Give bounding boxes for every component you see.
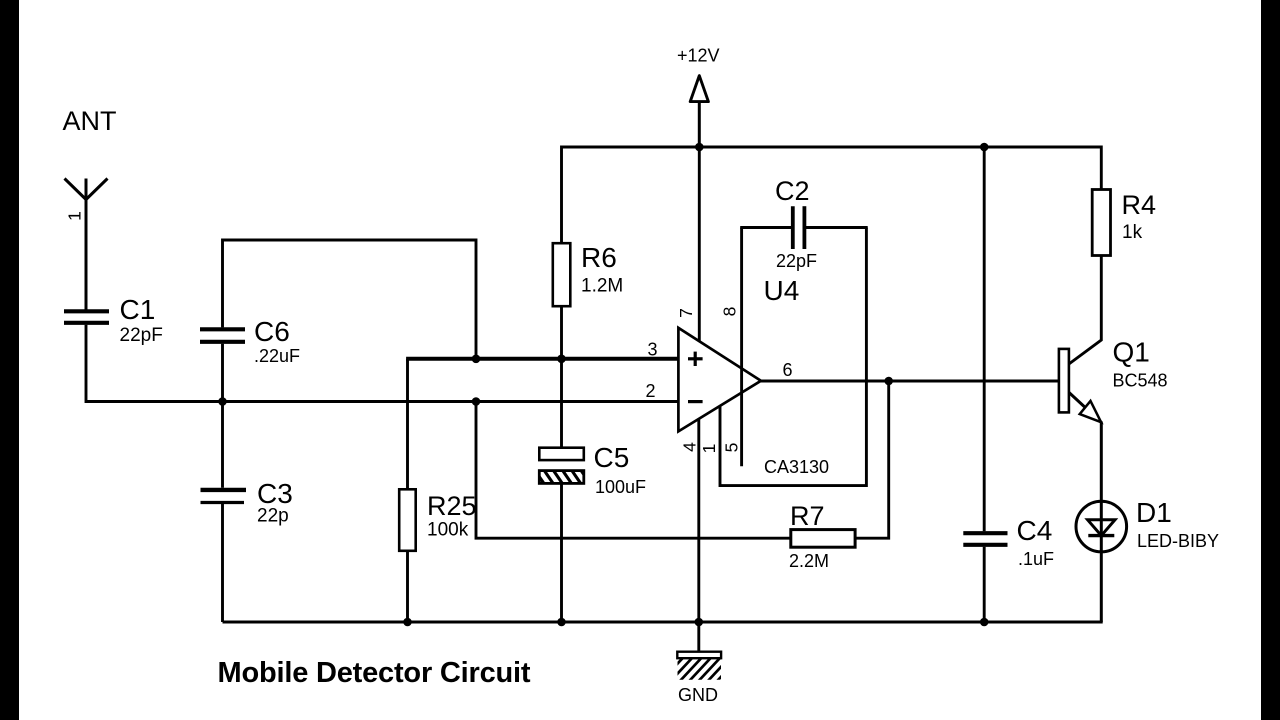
svg-text:100uF: 100uF xyxy=(595,477,646,497)
value 1.2M of R6 xyxy=(581,276,623,297)
label Q1 xyxy=(1113,337,1150,368)
label R4 xyxy=(1122,190,1157,220)
svg-text:D1: D1 xyxy=(1136,497,1172,528)
label C6 xyxy=(254,316,290,347)
pin label 1 xyxy=(699,444,719,454)
label GND xyxy=(678,685,718,705)
resistor R7 xyxy=(791,530,855,548)
svg-text:C1: C1 xyxy=(120,294,156,325)
label C1 xyxy=(120,294,156,325)
resistor R4 xyxy=(1092,190,1110,256)
label R25 xyxy=(427,491,477,521)
junction: R7 on output node xyxy=(884,377,893,386)
svg-text:1k: 1k xyxy=(1122,222,1143,243)
pin label 4 xyxy=(680,442,700,452)
label R6 xyxy=(581,242,617,273)
junction: C6/C3 on pin2 net xyxy=(218,397,227,406)
junction: R6 on pin3 net xyxy=(557,355,566,364)
wire: pin3 net down to C5 xyxy=(560,359,563,448)
wire: C5 to ground rail xyxy=(560,483,563,622)
svg-text:ANT: ANT xyxy=(63,106,117,136)
label C2 xyxy=(775,176,810,206)
svg-text:+12V: +12V xyxy=(677,46,720,66)
wire: rail down to C4 xyxy=(983,147,986,531)
svg-text:R6: R6 xyxy=(581,242,617,273)
value BC548 of Q1 xyxy=(1113,371,1168,391)
wire: pin2 net down to R7 xyxy=(476,402,791,539)
capacitor C5 bottom plate (polarized, hatched) xyxy=(533,468,592,487)
wire: pin 7 supply into op-amp xyxy=(698,147,701,343)
junction: C4 on ground rail xyxy=(980,618,989,627)
pin label 2 xyxy=(645,381,655,401)
wire: op-amp output pin 6 to Q1 base xyxy=(761,380,1059,383)
junction: C5 on ground rail xyxy=(557,618,566,627)
svg-text:3: 3 xyxy=(647,340,657,360)
value 100k of R25 xyxy=(427,520,469,541)
label R7 xyxy=(790,501,825,531)
svg-text:5: 5 xyxy=(722,443,742,453)
svg-text:1.2M: 1.2M xyxy=(581,276,623,297)
antenna pin 1 label xyxy=(65,211,85,221)
svg-text:.22uF: .22uF xyxy=(254,346,300,366)
svg-text:BC548: BC548 xyxy=(1113,371,1168,391)
wire: pin 4 to ground xyxy=(697,419,700,652)
svg-text:1: 1 xyxy=(65,211,85,221)
svg-text:22pF: 22pF xyxy=(776,251,817,271)
svg-text:22p: 22p xyxy=(257,506,289,527)
value 22pF of C1 xyxy=(120,325,163,346)
pin label 5 xyxy=(722,443,742,453)
resistor R6 xyxy=(553,243,571,306)
svg-text:U4: U4 xyxy=(764,275,800,306)
capacitor C3 xyxy=(201,490,247,503)
label C4 xyxy=(1017,515,1053,546)
svg-text:8: 8 xyxy=(720,307,740,317)
svg-text:C3: C3 xyxy=(257,478,293,509)
value LED-BIBY of D1 xyxy=(1137,531,1219,551)
title text Mobile Detector Circuit xyxy=(218,657,531,689)
label D1 xyxy=(1136,497,1172,528)
svg-text:4: 4 xyxy=(680,442,700,452)
power +12V arrow xyxy=(690,76,708,148)
ground GND symbol xyxy=(660,652,743,683)
resistor R25 xyxy=(399,489,416,551)
value 22pF of C2 xyxy=(776,251,817,271)
pin label 7 xyxy=(676,308,696,318)
capacitor C4 xyxy=(963,533,1007,545)
junction: R25 on ground rail xyxy=(403,618,412,627)
wire: pin 8/5 line through U4 xyxy=(740,228,743,467)
svg-text:100k: 100k xyxy=(427,520,469,541)
svg-text:.1uF: .1uF xyxy=(1018,549,1054,569)
IC body box U4 bottom/right edges with pin 1 xyxy=(720,228,866,486)
svg-text:22pF: 22pF xyxy=(120,325,163,346)
value .1uF of C4 xyxy=(1018,549,1054,569)
wire: non-inverting input net (pin 3, thick) xyxy=(406,357,678,361)
IC body box U4 top edge right segment xyxy=(806,226,868,229)
svg-text:R4: R4 xyxy=(1122,190,1157,220)
svg-text:1: 1 xyxy=(699,444,719,454)
wire: C1 to op-amp pin 2 (net at y=401) xyxy=(86,325,679,402)
svg-text:C5: C5 xyxy=(594,442,630,473)
op-amp U4 triangle CA3130 xyxy=(678,328,761,432)
wire: C4 to ground rail xyxy=(983,547,986,622)
junction: GND stem on ground rail xyxy=(695,618,704,627)
wire: ground bottom rail xyxy=(223,621,1103,624)
wire: pin3 net down to R25 xyxy=(406,359,409,490)
svg-text:C2: C2 xyxy=(775,176,810,206)
label C3 xyxy=(257,478,293,509)
value 1k of R4 xyxy=(1122,222,1143,243)
antenna ANT symbol xyxy=(65,179,108,310)
wire: C3 down to ground rail xyxy=(221,504,224,622)
wire: C6 to C3 segment xyxy=(221,344,224,488)
svg-text:C6: C6 xyxy=(254,316,290,347)
svg-text:CA3130: CA3130 xyxy=(764,457,829,477)
svg-text:2.2M: 2.2M xyxy=(789,551,829,571)
wire: R6 to pin3 net xyxy=(560,306,563,359)
capacitor C6 xyxy=(200,329,245,342)
IC body box U4 top edge left segment xyxy=(740,226,791,229)
wire: through LED D1 xyxy=(1100,501,1103,622)
transistor Q1 emitter with arrow xyxy=(1069,392,1101,501)
pin label 3 xyxy=(647,340,657,360)
svg-text:C4: C4 xyxy=(1017,515,1053,546)
svg-text:LED-BIBY: LED-BIBY xyxy=(1137,531,1219,551)
pin label 6 xyxy=(782,360,792,380)
svg-text:R25: R25 xyxy=(427,491,477,521)
svg-text:Mobile Detector Circuit: Mobile Detector Circuit xyxy=(218,657,531,689)
label CA3130 xyxy=(764,457,829,477)
label +12V xyxy=(677,46,720,66)
svg-text:Q1: Q1 xyxy=(1113,337,1150,368)
wire: R7 to output node xyxy=(855,381,889,538)
svg-text:GND: GND xyxy=(678,685,718,705)
label U4 xyxy=(764,275,800,306)
wire: R25 to ground rail xyxy=(406,551,409,622)
value 2.2M of R7 xyxy=(789,551,829,571)
junction: +12V stem on rail xyxy=(695,143,704,152)
svg-text:7: 7 xyxy=(676,308,696,318)
junction: R7 branch on pin2 net xyxy=(472,397,481,406)
junction: C6 branch on pin3 net xyxy=(472,355,481,364)
wire: +12V top rail and R4 drop xyxy=(562,147,1102,243)
svg-text:2: 2 xyxy=(645,381,655,401)
capacitor C2 xyxy=(793,206,805,249)
LED D1 diode symbol xyxy=(1088,520,1115,536)
capacitor C5 top plate xyxy=(539,448,584,460)
junction: C4 on rail xyxy=(980,143,989,152)
value 22p of C3 xyxy=(257,506,289,527)
LED D1 circle xyxy=(1076,501,1127,552)
antenna label ANT xyxy=(63,106,117,136)
capacitor C1 xyxy=(64,311,109,323)
wire: R4 to Q1 collector xyxy=(1069,256,1101,365)
transistor Q1 base bar xyxy=(1059,349,1069,413)
svg-text:R7: R7 xyxy=(790,501,825,531)
value .22uF of C6 xyxy=(254,346,300,366)
pin label 8 xyxy=(720,307,740,317)
wire: C6 top branch xyxy=(223,240,477,357)
value 100uF of C5 xyxy=(595,477,646,497)
svg-text:6: 6 xyxy=(782,360,792,380)
label C5 xyxy=(594,442,630,473)
